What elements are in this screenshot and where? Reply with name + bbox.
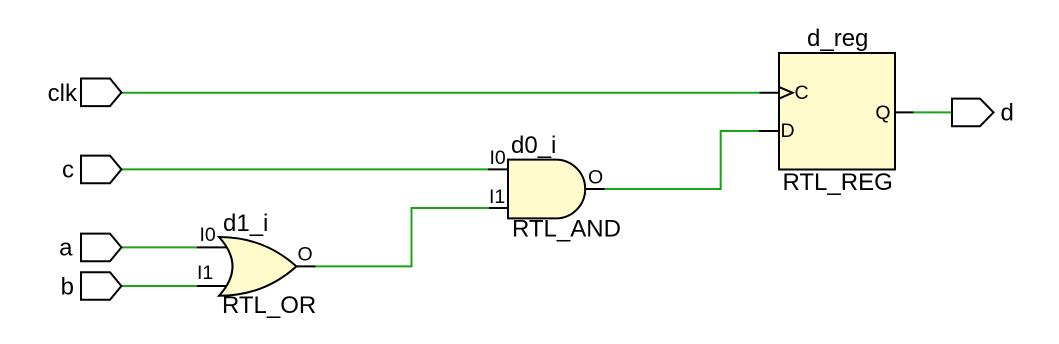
svg-text:c: c bbox=[62, 156, 74, 183]
svg-text:a: a bbox=[59, 234, 73, 261]
wire a net (green) bbox=[121, 246, 196, 248]
output port d bbox=[952, 99, 994, 127]
svg-text:Q: Q bbox=[875, 102, 890, 124]
pin stub D of d_reg bbox=[759, 130, 779, 132]
input port c bbox=[81, 156, 121, 184]
svg-text:D: D bbox=[781, 120, 795, 142]
svg-text:d_reg: d_reg bbox=[807, 25, 868, 52]
svg-text:C: C bbox=[795, 82, 809, 104]
svg-text:d: d bbox=[1001, 99, 1014, 126]
svg-text:RTL_AND: RTL_AND bbox=[512, 216, 621, 243]
svg-text:I0: I0 bbox=[200, 224, 216, 246]
pin stub I0 of d1_i bbox=[197, 246, 230, 248]
svg-text:O: O bbox=[298, 244, 313, 266]
pin stub O of d0_i bbox=[585, 188, 604, 190]
pin stub Q of d_reg bbox=[895, 111, 914, 113]
wire d1_i/O to d0_i/I1 (green) bbox=[316, 208, 489, 266]
input port clk bbox=[81, 79, 121, 107]
svg-text:I0: I0 bbox=[490, 147, 506, 169]
or-gate d1_i bbox=[219, 237, 296, 296]
svg-text:b: b bbox=[61, 274, 74, 301]
svg-text:d0_i: d0_i bbox=[511, 132, 556, 159]
pin stub I1 of d0_i bbox=[489, 207, 508, 209]
wire b net (green) bbox=[121, 285, 196, 287]
and-gate d0_i bbox=[508, 160, 585, 219]
svg-text:clk: clk bbox=[48, 80, 78, 107]
pin stub C of d_reg bbox=[760, 92, 780, 94]
input port a bbox=[81, 234, 121, 262]
clock triangle of d_reg bbox=[780, 87, 793, 98]
svg-text:RTL_REG: RTL_REG bbox=[783, 169, 893, 196]
svg-text:I1: I1 bbox=[489, 186, 505, 208]
register d_reg bbox=[779, 53, 895, 170]
wire clk net (green) bbox=[121, 92, 759, 94]
svg-text:RTL_OR: RTL_OR bbox=[222, 292, 316, 319]
wire d0_i/O to d_reg/D (green) bbox=[605, 131, 760, 189]
pin stub I1 of d1_i bbox=[197, 285, 230, 287]
pin stub I0 of d0_i bbox=[488, 168, 508, 170]
svg-text:d1_i: d1_i bbox=[223, 210, 268, 237]
svg-text:I1: I1 bbox=[197, 262, 213, 284]
wire d net (green) bbox=[914, 111, 952, 113]
pin stub O of d1_i bbox=[296, 265, 315, 267]
svg-text:O: O bbox=[588, 167, 603, 189]
wire c net (green) bbox=[121, 168, 488, 170]
input port b bbox=[81, 272, 121, 300]
